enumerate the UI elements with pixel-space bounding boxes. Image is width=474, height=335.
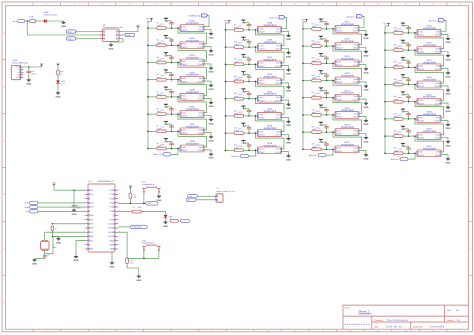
WS2812B U206 xyxy=(178,111,205,118)
ground above unit 32 xyxy=(401,143,406,148)
ground above unit 1 xyxy=(164,18,169,23)
junction on dc-in wire xyxy=(26,20,28,22)
wire GND pin unit 11 xyxy=(282,66,289,69)
WS2812B U227 xyxy=(415,64,442,71)
svg-text:R24: R24 xyxy=(312,143,315,146)
wire port to first DIN g2 xyxy=(282,17,287,28)
net flag MISO at MCU xyxy=(25,201,38,205)
svg-text:R18: R18 xyxy=(312,40,315,43)
wire GND pin unit 25 xyxy=(441,34,448,37)
svg-text:PB6: PB6 xyxy=(90,214,94,217)
junction at bus unit 27 xyxy=(384,67,386,69)
ground right of U218 xyxy=(364,50,369,57)
svg-text:GND: GND xyxy=(163,225,168,228)
capacitor C25a decoupling xyxy=(398,26,411,34)
wire GND pin unit 16 xyxy=(282,152,289,155)
resistor R5 xyxy=(51,226,57,231)
svg-text:VDD: VDD xyxy=(260,27,265,30)
capacitor C16a decoupling xyxy=(238,143,251,151)
WS2812B U225 xyxy=(415,30,442,37)
wire bus to U227 VDD xyxy=(385,66,417,68)
ground above unit 27 xyxy=(401,57,406,62)
resistor R23 100R xyxy=(312,126,322,134)
svg-text:R2: R2 xyxy=(133,206,135,209)
svg-text:GND: GND xyxy=(286,38,291,41)
WS2812B U211 xyxy=(255,61,282,68)
svg-text:GND: GND xyxy=(435,68,440,71)
wire GND pin unit 23 xyxy=(359,134,366,137)
svg-text:GND: GND xyxy=(198,80,203,83)
svg-text:VDD: VDD xyxy=(260,96,265,99)
+5V power flag at R16 xyxy=(56,62,60,67)
wire AREF to R5 xyxy=(53,223,86,225)
net flag Din at P1 xyxy=(186,198,196,202)
title block Sheet field xyxy=(447,319,460,322)
+5V power flag at R1 xyxy=(129,184,133,189)
ground right of U216 xyxy=(286,155,291,162)
wire bus to U206 VDD xyxy=(148,113,180,115)
wire bus to U217 VDD xyxy=(303,28,335,30)
wire MCU to WS2812 Din flag xyxy=(118,226,130,228)
label U210 xyxy=(264,39,277,44)
resistor R30 100R xyxy=(394,112,404,120)
svg-text:Drawn By:: Drawn By: xyxy=(413,325,423,328)
wire GND pin unit 28 xyxy=(441,86,448,89)
svg-text:WS2812B-B: WS2812B-B xyxy=(264,41,277,44)
capacitor C6a decoupling xyxy=(161,107,174,115)
svg-text:GND: GND xyxy=(109,48,114,51)
svg-text:GND: GND xyxy=(242,125,247,128)
svg-text:PB1: PB1 xyxy=(90,239,94,242)
junction at bus unit 28 xyxy=(384,84,386,86)
svg-text:R4: R4 xyxy=(157,73,159,76)
svg-text:RESET: RESET xyxy=(147,202,153,205)
svg-text:R9: R9 xyxy=(234,23,236,26)
svg-text:GND: GND xyxy=(164,54,169,57)
svg-text:GND: GND xyxy=(242,56,247,59)
label U222 xyxy=(341,107,354,112)
svg-text:GND: GND xyxy=(353,30,358,33)
svg-text:dc in: dc in xyxy=(13,20,17,23)
svg-text:DOUT: DOUT xyxy=(182,149,188,152)
wire bus to U218 VDD xyxy=(303,45,335,47)
svg-text:WS2812 Chip: WS2812 Chip xyxy=(189,15,201,18)
ground right of U217 xyxy=(364,33,369,40)
ground right of U222 xyxy=(364,119,369,126)
svg-text:GND: GND xyxy=(242,73,247,76)
capacitor C12a decoupling xyxy=(238,74,251,82)
ground above unit 8 xyxy=(164,139,169,144)
wire bus to U225 VDD xyxy=(385,32,417,34)
wire header to +5V flag xyxy=(122,29,139,32)
svg-text:R28: R28 xyxy=(394,78,397,81)
label U225 xyxy=(423,25,436,30)
svg-text:DOUT: DOUT xyxy=(260,151,266,154)
junction at bus unit 10 xyxy=(225,46,227,48)
svg-text:USB1: USB1 xyxy=(13,59,18,62)
wire +5V bus g4 xyxy=(385,26,389,153)
svg-text:ADC6: ADC6 xyxy=(108,231,113,234)
svg-text:GND: GND xyxy=(164,140,169,143)
svg-text:Micro USBFemale: Micro USBFemale xyxy=(13,61,28,64)
svg-text:+5V: +5V xyxy=(129,184,133,187)
wire bus to U231 VDD xyxy=(385,135,417,137)
svg-text:WS2812B-B: WS2812B-B xyxy=(186,91,199,94)
svg-text:R8: R8 xyxy=(157,142,159,145)
svg-text:C10: C10 xyxy=(31,70,34,73)
svg-text:TL/RD-WW-12068: TL/RD-WW-12068 xyxy=(43,14,57,17)
junction at bus unit 30 xyxy=(384,118,386,120)
wire XTAL1 to crystal Y1 xyxy=(45,232,85,240)
svg-text:GND: GND xyxy=(401,76,406,79)
svg-text:DOUT: DOUT xyxy=(419,68,425,71)
capacitor C31a decoupling xyxy=(398,129,411,137)
capacitor C10a decoupling xyxy=(238,40,251,48)
svg-text:Bad 1 of 7: Bad 1 of 7 xyxy=(269,16,278,19)
junction DOUT unit 27 xyxy=(414,67,416,69)
wire bus to U214 VDD xyxy=(226,115,258,117)
svg-text:DOUT: DOUT xyxy=(337,150,343,153)
label U202 xyxy=(186,37,199,42)
svg-text:2019-06-16: 2019-06-16 xyxy=(385,326,402,329)
svg-text:Company:: Company: xyxy=(374,319,384,322)
wire C9 to ground xyxy=(73,207,75,209)
wire GND pin unit 18 xyxy=(359,48,366,51)
wire bus to U223 VDD xyxy=(303,131,335,133)
wire XTAL2 to crystal Y1 xyxy=(45,236,85,253)
svg-text:VDD: VDD xyxy=(337,147,342,150)
wire R2 to LED2 xyxy=(142,212,166,215)
+5V power flag at USB xyxy=(40,62,44,67)
junction at bus unit 21 xyxy=(302,97,304,99)
junction DOUT unit 23 xyxy=(332,131,334,133)
svg-text:GND: GND xyxy=(72,213,77,216)
svg-text:R3: R3 xyxy=(130,259,132,262)
svg-text:AREF: AREF xyxy=(108,227,114,230)
resistor R17 100R xyxy=(312,22,322,30)
ground right of U232 xyxy=(446,158,451,165)
junction DOUT unit 6 xyxy=(177,113,179,115)
resistor R18 100R xyxy=(312,40,322,48)
svg-text:GND: GND xyxy=(242,91,247,94)
svg-text:ADC7: ADC7 xyxy=(108,223,113,226)
junction DOUT unit 26 xyxy=(414,49,416,51)
ground above unit 15 xyxy=(241,123,246,128)
wire GND pin unit 8 xyxy=(204,150,211,153)
wire DOUT to port Bad 3 of 7 xyxy=(324,149,334,155)
junction DOUT last unit g3 xyxy=(332,149,334,151)
net port Bad 3 of 7 xyxy=(429,19,445,23)
title block sheet name xyxy=(359,310,372,314)
ground right of U208 xyxy=(209,153,214,160)
svg-text:VDD: VDD xyxy=(182,94,187,97)
svg-text:Din: Din xyxy=(188,199,191,202)
junction DOUT unit 7 xyxy=(177,131,179,133)
svg-text:GND: GND xyxy=(275,82,280,85)
wire C10 to ground xyxy=(28,73,30,79)
wire DOUT U205 to DIN U206 xyxy=(178,97,207,113)
net port Bad 2 of 7 xyxy=(347,15,363,19)
svg-text:VDD: VDD xyxy=(337,78,342,81)
wire DOUT U230 to DIN U231 xyxy=(415,119,444,135)
svg-text:PD6: PD6 xyxy=(90,227,94,230)
fuse F1 xyxy=(30,16,36,23)
+5V power flag at MCU VCC xyxy=(52,182,56,187)
label U227 xyxy=(423,59,436,64)
svg-text:WS2812B-B: WS2812B-B xyxy=(264,24,277,27)
svg-text:GND: GND xyxy=(435,120,440,123)
svg-text:WS2812 Din: WS2812 Din xyxy=(132,226,142,229)
wire DOUT U227 to DIN U228 xyxy=(415,67,444,83)
svg-text:R1: R1 xyxy=(157,22,159,25)
svg-text:DOUT: DOUT xyxy=(260,99,266,102)
wire C8 to ground xyxy=(35,257,45,259)
svg-text:GND: GND xyxy=(319,38,324,41)
wire VBUS to capacitor C10 xyxy=(28,67,30,71)
resistor R29 100R xyxy=(394,95,404,103)
junction DOUT unit 28 xyxy=(414,84,416,86)
ground at C9 xyxy=(72,209,77,216)
junction DOUT unit 12 xyxy=(255,81,257,83)
svg-text:WS2812B-B: WS2812B-B xyxy=(423,44,436,47)
wire RST to header xyxy=(76,38,100,40)
ground above unit 10 xyxy=(241,37,246,42)
svg-text:VDD: VDD xyxy=(182,129,187,132)
net flag RST at header xyxy=(67,37,77,40)
wire GND pin unit 17 xyxy=(359,30,366,33)
svg-text:GND: GND xyxy=(435,137,440,140)
resistor R7 100R xyxy=(157,125,167,133)
wire SW1 right to ground xyxy=(158,193,160,195)
svg-text:WS2812B-B: WS2812B-B xyxy=(341,23,354,26)
svg-text:Bad 1 of 7: Bad 1 of 7 xyxy=(154,153,163,156)
junction at bus unit 1 xyxy=(147,27,149,29)
junction at bus unit 20 xyxy=(302,80,304,82)
wire R3 to ground xyxy=(127,264,139,275)
svg-text:WS2812B-B: WS2812B-B xyxy=(186,57,199,60)
net flag dc in xyxy=(13,19,25,23)
svg-text:GND: GND xyxy=(286,90,291,93)
label SW1 xyxy=(142,181,154,186)
junction at bus unit 16 xyxy=(225,150,227,152)
wire GND pin unit 7 xyxy=(204,133,211,136)
wire GND pin unit 14 xyxy=(282,117,289,120)
svg-text:R2: R2 xyxy=(157,39,159,42)
svg-text:GND: GND xyxy=(446,162,451,165)
resistor R9 100R xyxy=(234,23,244,31)
ground above unit 26 xyxy=(401,40,406,45)
wire GND pin unit 12 xyxy=(282,83,289,86)
wire DOUT U218 to DIN U219 xyxy=(333,46,362,62)
junction DOUT unit 25 xyxy=(414,32,416,34)
title block Date field xyxy=(374,325,403,328)
resistor R4 xyxy=(170,216,179,222)
svg-text:DOUT: DOUT xyxy=(260,65,266,68)
svg-text:GND: GND xyxy=(319,141,324,144)
WS2812B U219 xyxy=(333,60,360,67)
wire MCU bottom to ground xyxy=(111,252,113,262)
resistor R24 100R xyxy=(312,143,322,151)
WS2812B U217 xyxy=(333,26,360,33)
resistor R6 100R xyxy=(157,108,167,116)
wire GND pin unit 27 xyxy=(441,69,448,72)
label U211 xyxy=(264,56,277,61)
wire DOUT U213 to DIN U214 xyxy=(256,99,285,115)
svg-text:GND: GND xyxy=(286,73,291,76)
label U221 xyxy=(341,89,354,94)
resistor R13 100R xyxy=(234,92,244,100)
junction at bus unit 22 xyxy=(302,114,304,116)
resistor R3 100R xyxy=(157,56,167,64)
svg-text:GND: GND xyxy=(209,140,214,143)
svg-text:GND: GND xyxy=(275,117,280,120)
svg-text:GND: GND xyxy=(275,31,280,34)
junction DOUT unit 4 xyxy=(177,79,179,81)
ground right of U214 xyxy=(286,120,291,127)
resistor R10 100R xyxy=(234,41,244,49)
ground above unit 28 xyxy=(401,75,406,80)
label U212 xyxy=(264,73,277,78)
svg-text:ATMEGA48P-AU: ATMEGA48P-AU xyxy=(98,180,114,183)
WS2812B U226 xyxy=(415,47,442,54)
wire bus to U208 VDD xyxy=(148,148,180,150)
wire DOUT U217 to DIN U218 xyxy=(333,29,362,45)
wire VBUS to +5V xyxy=(23,66,41,68)
svg-text:VDD: VDD xyxy=(419,30,424,33)
svg-text:DOUT: DOUT xyxy=(182,115,188,118)
svg-text:WS2812B-B: WS2812B-B xyxy=(186,108,199,111)
svg-text:WS2812B-B: WS2812B-B xyxy=(423,79,436,82)
ground right of U211 xyxy=(286,69,291,76)
svg-text:WS2812B-B: WS2812B-B xyxy=(264,58,277,61)
wire +5V to VCC pin xyxy=(54,186,85,190)
label U207 xyxy=(186,123,199,128)
label U218 xyxy=(341,38,354,43)
title block frame xyxy=(343,305,469,329)
svg-text:GND: GND xyxy=(286,124,291,127)
svg-text:GND: GND xyxy=(319,55,324,58)
junction R3 top xyxy=(126,258,128,260)
wire bus to U205 VDD xyxy=(148,96,180,98)
wire DOUT U210 to DIN U211 xyxy=(256,47,285,63)
svg-text:GND: GND xyxy=(446,93,451,96)
svg-text:GND: GND xyxy=(198,29,203,32)
junction DOUT unit 1 xyxy=(177,27,179,29)
junction at bus unit 26 xyxy=(384,49,386,51)
LED D2 power indicator xyxy=(43,11,57,23)
svg-text:R11: R11 xyxy=(234,58,237,61)
USB1 labels xyxy=(13,59,28,65)
capacitor C11a decoupling xyxy=(238,57,251,65)
junction at bus unit 25 xyxy=(384,32,386,34)
wire MISO to header xyxy=(76,31,100,33)
wire +5V bus g2 xyxy=(226,23,230,150)
svg-text:WS2812B-B: WS2812B-B xyxy=(423,96,436,99)
junction DOUT unit 10 xyxy=(255,46,257,48)
wire +5V bus g3 xyxy=(303,22,307,149)
wire dc-in to header J1 pin 3 xyxy=(27,21,101,35)
junction at bus unit 7 xyxy=(147,131,149,133)
wire fuse to LED D2 xyxy=(36,20,44,22)
svg-text:PB5: PB5 xyxy=(110,239,114,242)
+5V power flag g4 xyxy=(383,23,390,27)
svg-text:GND: GND xyxy=(209,36,214,39)
wire bus to U228 VDD xyxy=(385,84,417,86)
label U228 xyxy=(423,76,436,81)
svg-text:GND: GND xyxy=(401,42,406,45)
label U226 xyxy=(423,42,436,47)
resistor R1 xyxy=(129,193,136,199)
resistor R28 100R xyxy=(394,78,404,86)
svg-text:GND: GND xyxy=(164,123,169,126)
junction DOUT unit 20 xyxy=(332,80,334,82)
wire MCU to SW2 net xyxy=(118,232,159,258)
pushbutton SW2 xyxy=(142,245,160,250)
wire DOUT U204 to DIN U205 xyxy=(178,80,207,96)
resistor R26 100R xyxy=(394,44,404,52)
svg-text:Sheet:: Sheet: xyxy=(447,319,453,322)
svg-text:VDD: VDD xyxy=(419,116,424,119)
svg-text:DOUT: DOUT xyxy=(419,34,425,37)
svg-text:GND: GND xyxy=(401,25,406,28)
resistor R3 xyxy=(126,258,133,264)
svg-text:GND: GND xyxy=(286,141,291,144)
svg-text:R17: R17 xyxy=(312,22,315,25)
svg-text:VDD: VDD xyxy=(182,43,187,46)
svg-text:DOUT: DOUT xyxy=(182,132,188,135)
junction at bus unit 14 xyxy=(225,115,227,117)
svg-text:GND: GND xyxy=(401,94,406,97)
label U208 xyxy=(186,140,199,145)
svg-text:MISO: MISO xyxy=(25,202,30,205)
resistor R16 xyxy=(57,70,64,75)
svg-text:WS2812B-B: WS2812B-B xyxy=(264,93,277,96)
ground right of U229 xyxy=(446,106,451,113)
ground at LED2 xyxy=(163,221,168,228)
svg-text:R12: R12 xyxy=(234,75,237,78)
wire dc in to fuse xyxy=(25,20,30,22)
label U203 xyxy=(186,54,199,59)
ground above unit 24 xyxy=(319,139,324,144)
svg-text:R23: R23 xyxy=(312,126,315,129)
svg-text:GND: GND xyxy=(401,111,406,114)
capacitor C7a decoupling xyxy=(161,124,174,132)
junction DOUT unit 17 xyxy=(332,28,334,30)
svg-text:VDD: VDD xyxy=(182,77,187,80)
svg-text:VDD: VDD xyxy=(337,61,342,64)
svg-text:WS2812B-B: WS2812B-B xyxy=(186,39,199,42)
svg-text:WS2812B-B: WS2812B-B xyxy=(186,125,199,128)
svg-text:R10: R10 xyxy=(234,41,237,44)
+5V power flag at header xyxy=(136,24,140,29)
wire SW1 left to reset net xyxy=(143,193,145,204)
svg-text:GND: GND xyxy=(164,89,169,92)
WS2812B U221 xyxy=(333,94,360,101)
svg-text:WS2812B-B: WS2812B-B xyxy=(423,147,436,150)
svg-text:R16: R16 xyxy=(60,70,63,73)
wire bus to U207 VDD xyxy=(148,130,180,132)
ground above unit 11 xyxy=(241,54,246,59)
capacitor C5a decoupling xyxy=(161,90,174,98)
ground above unit 19 xyxy=(319,53,324,58)
wire DOUT U207 to DIN U208 xyxy=(178,131,207,147)
svg-text:DOUT: DOUT xyxy=(182,29,188,32)
svg-text:R7: R7 xyxy=(157,125,159,128)
svg-text:Date:: Date: xyxy=(374,325,379,328)
svg-text:GND: GND xyxy=(110,266,115,269)
net flag MISO at header xyxy=(67,30,77,33)
wire bus to U232 VDD xyxy=(385,152,417,154)
